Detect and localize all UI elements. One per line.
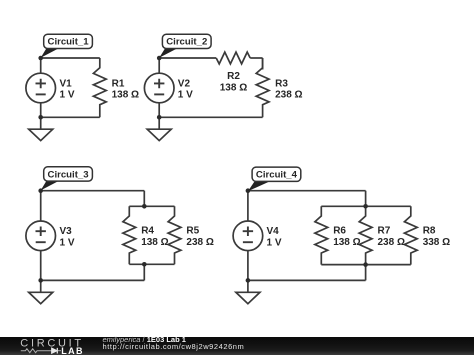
svg-text:238 Ω: 238 Ω: [186, 237, 213, 248]
svg-text:R2: R2: [227, 71, 240, 82]
node junction circuit4 top node: [246, 188, 251, 193]
wire circuit4 top stub: [365, 191, 367, 207]
svg-text:1 V: 1 V: [60, 237, 75, 248]
resistor R7: [359, 206, 372, 264]
wire V4 top lead: [247, 191, 249, 221]
node junction circuit4 box bottom junction: [363, 262, 368, 267]
svg-text:Circuit_4: Circuit_4: [256, 170, 298, 181]
svg-text:R5: R5: [186, 226, 199, 237]
wire circuit4 box bottom rail: [321, 264, 411, 266]
node junction circuit4 box top junction: [363, 204, 368, 209]
svg-text:238 Ω: 238 Ω: [378, 237, 405, 248]
wire circuit4 bottom rail: [248, 279, 366, 281]
wire circuit3 box bottom rail: [129, 263, 174, 265]
node label Circuit_3 callout: [41, 167, 93, 191]
node junction circuit3 box bottom junction: [142, 262, 147, 267]
credit text: [103, 336, 186, 344]
resistor R1: [93, 58, 106, 117]
wire V2 bottom lead: [158, 103, 160, 118]
svg-text:R1: R1: [112, 78, 125, 89]
node junction circuit3 top node: [38, 188, 43, 193]
svg-text:R7: R7: [378, 226, 391, 237]
node junction circuit4 bottom node: [246, 278, 251, 283]
bottom credit bar: [0, 337, 474, 356]
svg-text:138 Ω: 138 Ω: [333, 237, 360, 248]
ground circuit2: [147, 117, 171, 140]
wire circuit3 bottom rail: [41, 279, 145, 281]
wire circuit3 box top rail: [129, 205, 174, 207]
node junction circuit3 bottom node: [38, 278, 43, 283]
svg-text:238 Ω: 238 Ω: [275, 90, 302, 101]
wire circuit3 top stub: [143, 191, 145, 207]
wire V1 bottom lead: [40, 103, 42, 118]
wire circuit2 top rail right: [250, 57, 262, 59]
svg-text:Circuit_3: Circuit_3: [48, 169, 89, 180]
wire circuit1 top rail: [41, 57, 100, 59]
node junction circuit2 bottom node: [157, 115, 162, 120]
node label Circuit_4 callout: [248, 167, 301, 191]
wire circuit4 box top rail: [321, 205, 411, 207]
wire V3 bottom lead: [40, 251, 42, 281]
svg-text:1 V: 1 V: [267, 237, 282, 248]
svg-text:V3: V3: [60, 226, 73, 237]
wire V4 bottom lead: [247, 251, 249, 281]
svg-text:V2: V2: [178, 78, 191, 89]
resistor R5: [168, 206, 181, 264]
svg-text:R6: R6: [333, 226, 346, 237]
resistor R6: [315, 206, 328, 264]
svg-text:R4: R4: [141, 226, 154, 237]
svg-text:138 Ω: 138 Ω: [112, 90, 139, 101]
node junction circuit3 box top junction: [142, 204, 147, 209]
node label Circuit_2 callout: [159, 34, 211, 58]
voltage source V3: [26, 221, 56, 251]
ground circuit1: [29, 117, 53, 140]
wire circuit4 top rail: [248, 190, 366, 192]
node junction circuit1 top node: [38, 56, 43, 61]
svg-text:138 Ω: 138 Ω: [220, 82, 247, 93]
svg-text:R8: R8: [423, 226, 436, 237]
wire circuit2 bottom rail: [159, 116, 262, 118]
resistor R4: [123, 206, 136, 264]
resistor R8: [404, 206, 417, 264]
svg-text:1 V: 1 V: [178, 90, 193, 101]
resistor R3: [256, 58, 269, 117]
wire V3 top lead: [40, 191, 42, 221]
svg-text:Circuit_2: Circuit_2: [166, 37, 207, 48]
wire circuit2 top rail left: [159, 57, 216, 59]
voltage source V4: [233, 221, 263, 251]
wire R3 top lead corner: [262, 58, 264, 70]
ground circuit3: [29, 280, 53, 303]
svg-text:1 V: 1 V: [60, 90, 75, 101]
svg-text:338 Ω: 338 Ω: [423, 237, 450, 248]
wire circuit3 bottom stub: [143, 264, 145, 280]
svg-text:R3: R3: [275, 78, 288, 89]
wire circuit3 top rail: [41, 190, 145, 192]
svg-text:V4: V4: [267, 226, 280, 237]
wire circuit4 bottom stub: [365, 265, 367, 281]
voltage source V2: [144, 73, 174, 103]
svg-text:Circuit_1: Circuit_1: [48, 37, 90, 48]
node junction circuit2 top node: [157, 56, 162, 61]
voltage source V1: [26, 73, 56, 103]
wire V2 top lead: [158, 58, 160, 73]
node label Circuit_1 callout: [41, 34, 93, 58]
circuitlab logo: [20, 337, 90, 356]
node junction circuit1 bottom node: [38, 115, 43, 120]
ground circuit4: [236, 280, 260, 303]
wire V1 top lead: [40, 58, 42, 73]
wire circuit1 bottom rail: [41, 116, 100, 118]
svg-text:V1: V1: [60, 78, 73, 89]
svg-text:138 Ω: 138 Ω: [141, 237, 168, 248]
resistor R2: [216, 52, 250, 64]
